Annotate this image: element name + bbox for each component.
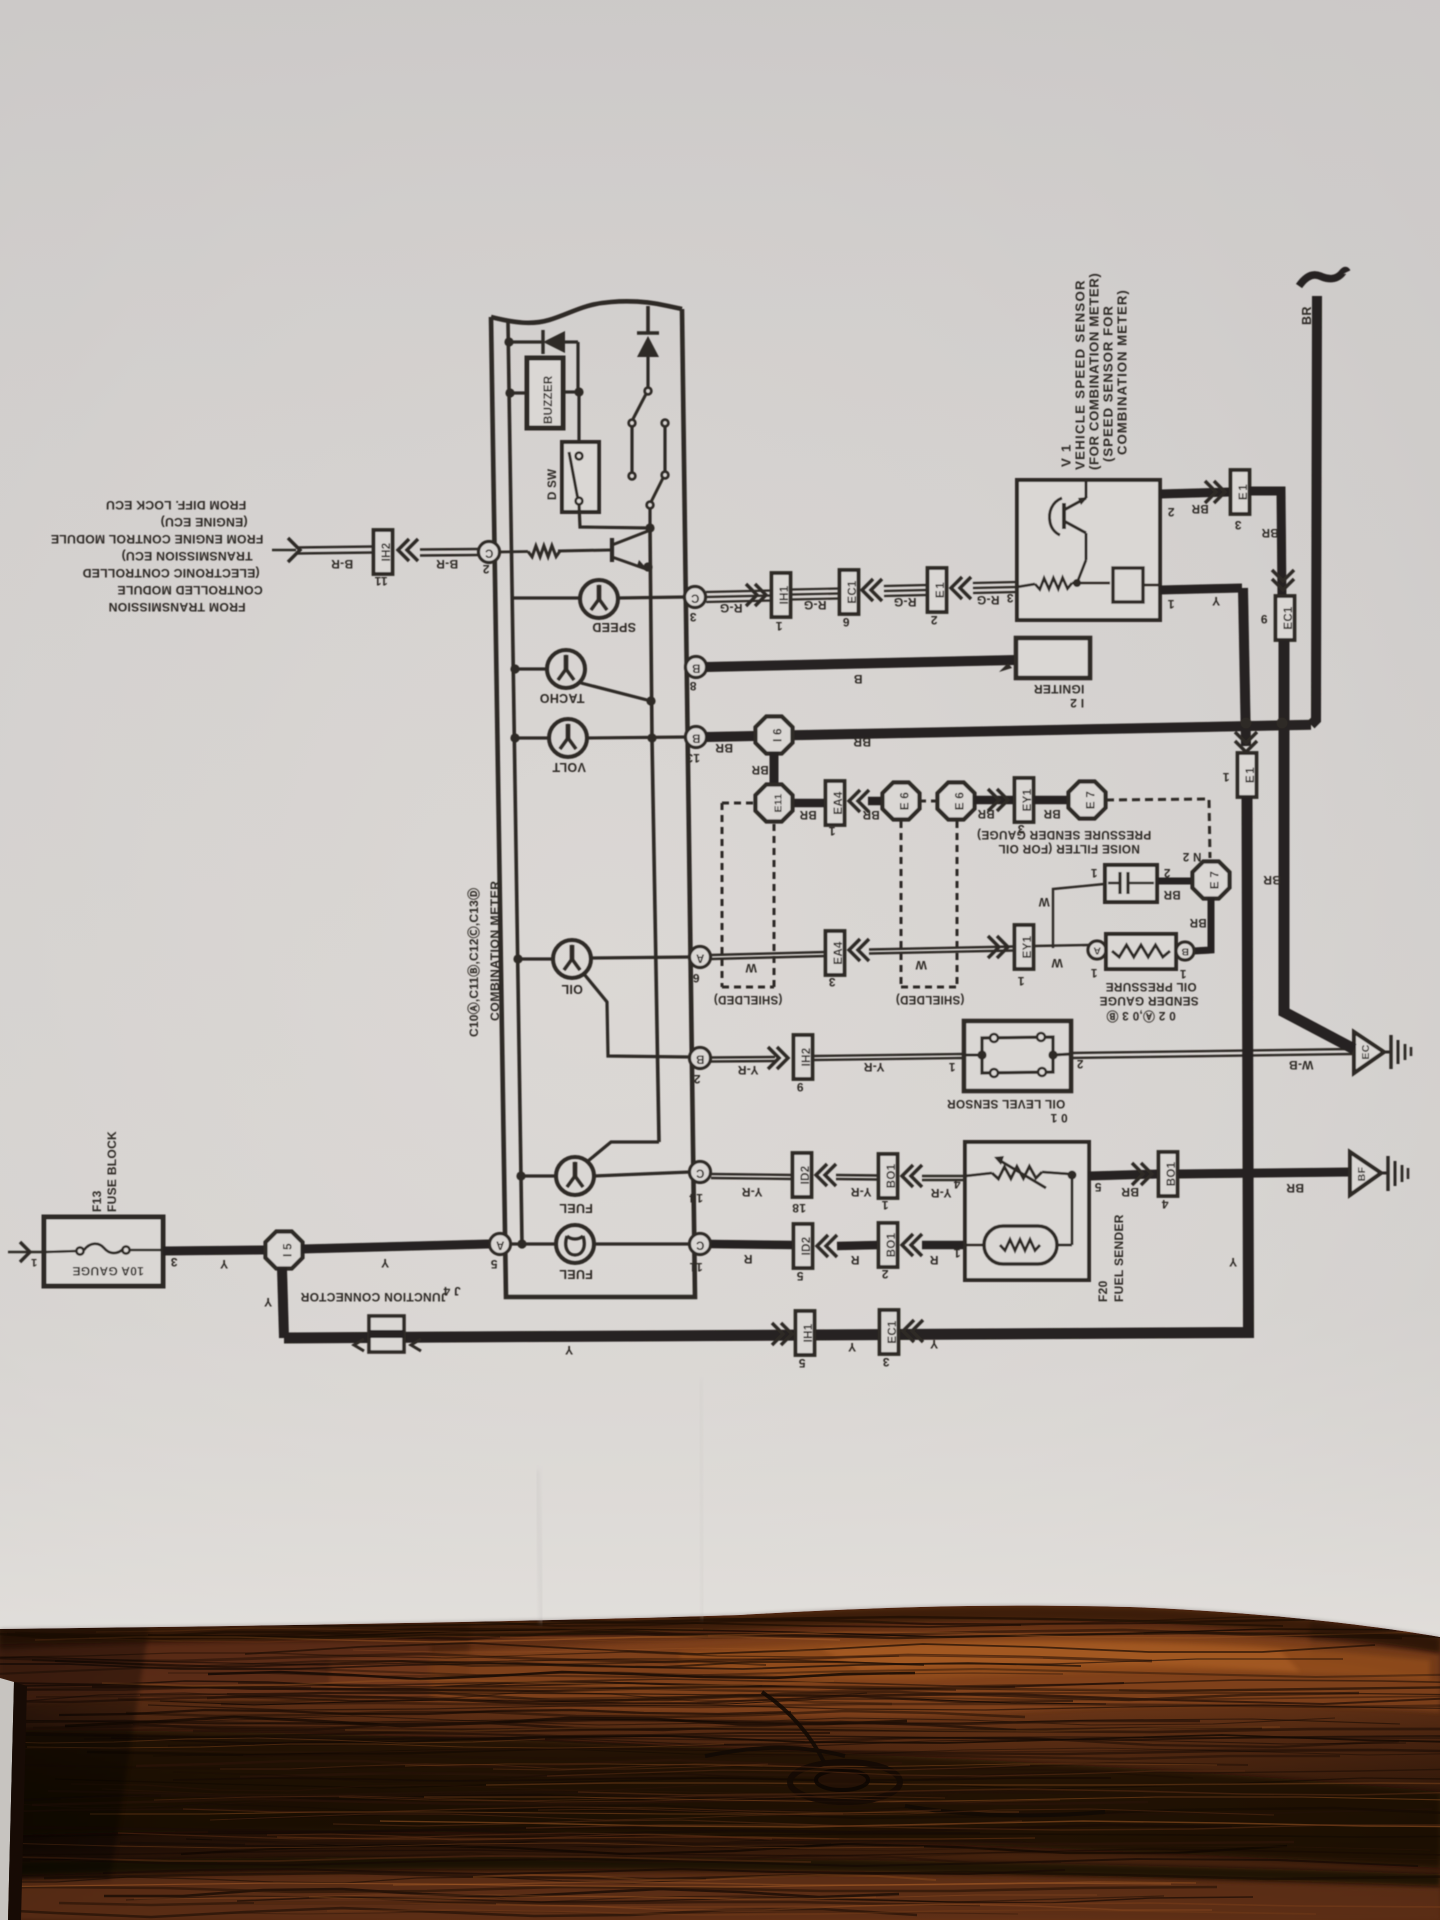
pin A of oil pressure sender [1088, 941, 1106, 959]
ground BF symbol bars [1381, 1156, 1408, 1191]
svg-text:Y: Y [848, 1340, 856, 1354]
svg-text:1: 1 [31, 1256, 37, 1268]
wire: oil gauge warning diagonal to 2B row [584, 974, 690, 1057]
wire: speed gauge to pin 3C [618, 597, 685, 598]
connector E6 octagon (first) [883, 783, 920, 820]
connector EC1 pin 3 (bottom bus) [880, 1310, 900, 1354]
svg-text:B: B [692, 662, 701, 674]
wire: I6 to E11 stub [770, 752, 779, 787]
wire W EA4 to EY1 [869, 947, 1014, 954]
svg-text:2: 2 [881, 1267, 888, 1281]
svg-text:3: 3 [882, 1355, 889, 1369]
ground EC symbol bars [1384, 1035, 1411, 1069]
gauge TACHO [547, 650, 585, 688]
svg-text:Y: Y [930, 1337, 938, 1351]
svg-text:N 2: N 2 [1183, 850, 1202, 862]
shield dashed link E6 to E6 [919, 800, 938, 803]
transistor emitter lead [612, 557, 647, 569]
svg-text:A: A [1093, 945, 1101, 957]
svg-text:BO1: BO1 [886, 1232, 898, 1257]
svg-text:3: 3 [828, 975, 835, 989]
svg-text:BF: BF [1356, 1166, 1368, 1181]
svg-text:EY1: EY1 [1022, 788, 1034, 811]
svg-text:5: 5 [796, 1269, 803, 1283]
wire Y-R IH2 to oil level sensor [813, 1054, 963, 1060]
arrow chevrons from ID2 (R) [817, 1235, 837, 1257]
wire W-B double to EC ground [1071, 1049, 1352, 1058]
svg-text:W: W [915, 958, 927, 972]
svg-text:9: 9 [1260, 612, 1267, 626]
svg-text:A: A [696, 952, 705, 964]
svg-text:BR: BR [1163, 888, 1181, 900]
switch contact b2 [662, 472, 669, 479]
wire BR E6 to EY1 [974, 796, 1014, 805]
svg-text:Y-R: Y-R [742, 1185, 763, 1199]
svg-text:5: 5 [798, 1356, 805, 1370]
svg-text:SENDER GAUGE: SENDER GAUGE [1099, 994, 1198, 1008]
junction dot BR/EC1 cross [1277, 718, 1288, 729]
arrow right of J4 [411, 1339, 421, 1351]
arrow chevrons W from EA4 [849, 939, 869, 961]
connector IH1 pin 5 (bottom bus) [796, 1311, 816, 1355]
svg-text:IH1: IH1 [779, 585, 791, 604]
wire Y fuse to I5 [163, 1250, 266, 1251]
shield dashed box (middle) [901, 821, 957, 987]
junction dot sensor resistor [1073, 579, 1081, 587]
svg-text:1: 1 [828, 824, 835, 838]
switch contact a2 [629, 420, 636, 427]
wire BR feed hook (torn-end squiggle) [1299, 271, 1347, 287]
wire: pickup to box edge [1143, 584, 1160, 587]
wire: sensor transistor to resistor [1077, 560, 1086, 583]
switch lever a [633, 394, 646, 419]
wire: meter internal right bus (lower) [650, 528, 659, 1142]
wire: D SW to right bus [579, 504, 650, 528]
gauge SPEED [580, 580, 618, 618]
D SW bottom contact [576, 498, 583, 505]
wire BR fuel sender to BO1 [1089, 1174, 1158, 1176]
wire BR EA4 to E6 [868, 797, 884, 806]
shield dashed E7 to noise filter E7 [1106, 799, 1210, 858]
svg-text:E 7: E 7 [1086, 791, 1098, 809]
svg-text:11: 11 [374, 574, 387, 588]
meter pin 5A [490, 1234, 511, 1255]
svg-text:2: 2 [930, 613, 937, 627]
connector E7 octagon (top row) [1069, 782, 1106, 819]
junction dot volt left [510, 733, 519, 742]
wire BR EC1 down to EC ground [1284, 640, 1354, 1049]
svg-text:I 2: I 2 [1070, 696, 1084, 710]
svg-text:1: 1 [953, 1246, 960, 1260]
svg-text:NOISE FILTER (FOR OIL: NOISE FILTER (FOR OIL [998, 842, 1140, 856]
svg-text:C: C [696, 1167, 705, 1179]
arrow chevrons from EA4 [849, 790, 869, 812]
wire: volt gauge to pin 13B [586, 737, 686, 738]
svg-text:TACHO: TACHO [539, 691, 584, 705]
svg-text:(ENGINE ECU): (ENGINE ECU) [160, 515, 247, 529]
svg-text:B: B [696, 1053, 705, 1065]
svg-text:R-G: R-G [804, 598, 827, 612]
wire: buzzer left lead [510, 391, 527, 394]
wire: switch b down [663, 426, 666, 471]
arrow chevrons R-G toward IH1 [746, 584, 766, 606]
svg-text:B: B [853, 672, 862, 686]
svg-text:2: 2 [693, 1072, 700, 1086]
connector ID2 pin 5 [794, 1224, 814, 1268]
svg-text:COMBINATION METER: COMBINATION METER [488, 881, 502, 1021]
connector BO1 pin 4 (BR) [1159, 1152, 1179, 1196]
svg-text:0 2 Ⓐ,0 3 Ⓑ: 0 2 Ⓐ,0 3 Ⓑ [1106, 1009, 1176, 1023]
svg-text:14: 14 [689, 1191, 703, 1205]
svg-text:BR: BR [715, 741, 733, 755]
gauge OIL [553, 940, 591, 978]
svg-text:PRESSURE SENDER GAUGE): PRESSURE SENDER GAUGE) [977, 828, 1151, 842]
arrow chevrons toward EB1 (top right) [1205, 481, 1225, 503]
wire R ID2 to BO1 [837, 1245, 879, 1246]
D SW top contact [576, 453, 583, 460]
ground EC triangle [1354, 1032, 1384, 1073]
connector IH1 pin 1 (R-G) [772, 573, 792, 617]
svg-text:E 6: E 6 [900, 792, 912, 810]
svg-text:D SW: D SW [547, 469, 559, 500]
fuel sender box F20 [965, 1142, 1089, 1280]
svg-text:TRANSMISSION ECU): TRANSMISSION ECU) [121, 549, 252, 563]
buzzer box [527, 358, 563, 428]
svg-text:1: 1 [1017, 974, 1024, 988]
text block: FROM TRANSMISSION CONTROLLED MODULE / ENGINE ECU / DIFF LOCK ECU (rotated 180) [51, 498, 264, 614]
arrow chevrons down on Y line [1235, 732, 1257, 752]
fuse block box F13 [44, 1217, 163, 1286]
transistor Q (speed buffer) base bar [610, 538, 614, 562]
svg-text:Y-R: Y-R [851, 1185, 872, 1199]
combination meter torn top edge (wavy) [491, 301, 682, 322]
wire W EY1 to sender pin A [1034, 945, 1089, 946]
svg-text:BR: BR [1300, 306, 1314, 325]
svg-text:Y: Y [264, 1295, 272, 1309]
wire BR EB1 corner down to EC1 [1249, 491, 1282, 600]
junction dot tacho left [510, 664, 519, 673]
connector I6 octagon [756, 717, 793, 754]
connector EC1 pin 6 (R-G) [840, 570, 860, 614]
arrow chevrons from BO1 (Y-R) [902, 1165, 922, 1187]
oil level sensor internal switch [977, 1033, 1057, 1077]
wire: tacho left lead [515, 667, 548, 670]
wire BR BO1 to BF ground [1178, 1172, 1350, 1174]
svg-text:VEHICLE SPEED SENSOR: VEHICLE SPEED SENSOR [1073, 279, 1088, 470]
wire: diode to switch node [576, 342, 579, 392]
arrow chevrons on B-R wire [398, 539, 418, 561]
svg-text:EY1: EY1 [1022, 935, 1034, 958]
svg-text:ID2: ID2 [801, 1237, 813, 1256]
transistor collector lead [612, 531, 648, 545]
svg-text:5: 5 [490, 1257, 497, 1271]
wire R thick 11C to ID2 [711, 1244, 794, 1245]
arrow chevrons from EC1 (bottom) [903, 1320, 923, 1342]
svg-text:3: 3 [1006, 591, 1013, 605]
junction dot D SW/right bus [645, 523, 654, 532]
svg-text:E 7: E 7 [1210, 871, 1222, 889]
svg-text:FROM ENGINE CONTROL MODULE: FROM ENGINE CONTROL MODULE [51, 532, 264, 546]
connector I5 octagon [266, 1232, 303, 1269]
svg-text:FROM TRANSMISSION: FROM TRANSMISSION [108, 600, 245, 614]
wire Y-R thin 14C to ID2 [711, 1174, 793, 1179]
svg-text:(SPEED SENSOR FOR: (SPEED SENSOR FOR [1101, 305, 1116, 462]
noise filter N2 box with capacitor [1105, 865, 1157, 902]
connector BO1 pin 2 (R) [879, 1223, 899, 1267]
svg-text:BR: BR [1121, 1185, 1139, 1199]
svg-text:ID2: ID2 [800, 1166, 812, 1185]
junction dot volt/bus [647, 733, 656, 742]
wire BR E7 down to pin B [1194, 898, 1211, 951]
speed sensor pickup element [1113, 568, 1143, 602]
gauge FUEL [556, 1157, 594, 1195]
svg-text:J 4: J 4 [443, 1284, 461, 1298]
meter pin 2C [479, 542, 500, 563]
wire: speed gauge left lead [512, 596, 580, 599]
svg-text:IH2: IH2 [381, 543, 393, 562]
arrow chevrons from BO1 (R) [902, 1234, 922, 1256]
svg-text:W-B: W-B [1289, 1058, 1314, 1072]
meter pin 6A [690, 947, 711, 968]
junction dot buzzer left [505, 388, 514, 397]
svg-text:EC1: EC1 [887, 1320, 899, 1344]
junction dot buzzer right [574, 387, 583, 396]
wire B thick 8B to igniter [706, 660, 1016, 667]
svg-text:Y-R: Y-R [931, 1186, 952, 1200]
switch lever b [651, 478, 663, 502]
wire BR thick 13B run [706, 725, 1311, 737]
fuel sender float resistor (stadium) [965, 1226, 1072, 1264]
fuse 10A GAUGE symbol [46, 1244, 163, 1255]
gauge VOLT [549, 719, 587, 757]
junction dot 5A bus [517, 1239, 526, 1248]
door switch D SW box [562, 442, 599, 512]
svg-text:1: 1 [1090, 866, 1097, 878]
meter pin 14C [690, 1162, 711, 1183]
speed sensor transistor [1050, 481, 1089, 560]
wire: oil gauge to pin 6A [590, 957, 690, 958]
svg-text:OIL PRESSURE: OIL PRESSURE [1105, 980, 1196, 994]
svg-text:1: 1 [1179, 967, 1186, 979]
connector E6 octagon (second) [938, 783, 975, 820]
svg-text:1: 1 [1167, 597, 1174, 611]
connector E11 octagon [756, 785, 793, 822]
wire W thin 6A to EA4 [711, 952, 826, 959]
svg-text:W: W [745, 961, 757, 975]
junction dot fuel left [516, 1171, 525, 1180]
wire Y-R ID2 to BO1 [836, 1175, 879, 1180]
wire: switch a down [630, 426, 633, 472]
wire: diode to first switch [646, 357, 649, 388]
svg-text:IGNITER: IGNITER [1034, 682, 1085, 696]
connector IH2 pin 11 (B-R wire) [374, 530, 394, 574]
connector EC1 pin 9 (right side) [1276, 596, 1296, 640]
arrow chevrons toward BO1 (BR) [1132, 1163, 1152, 1185]
wire R BO1 to fuel sender [922, 1241, 964, 1250]
svg-text:I 5: I 5 [283, 1243, 295, 1257]
meter pin 3C [685, 587, 706, 608]
resistor (speed input) [499, 546, 560, 557]
junction connector J4 box [369, 1316, 404, 1352]
wire arrow into fuse block pin 1 [8, 1242, 46, 1262]
switch contact a1 [645, 388, 652, 395]
svg-text:CONTROLLED MODULE: CONTROLLED MODULE [117, 583, 263, 597]
svg-text:JUNCTION CONNECTOR: JUNCTION CONNECTOR [300, 1290, 447, 1304]
svg-text:Y-R: Y-R [738, 1063, 759, 1077]
meter pin 8B [686, 657, 707, 678]
svg-text:FUEL: FUEL [559, 1267, 593, 1281]
wire: warning lamp to pin 11C [594, 1242, 690, 1245]
connector EY1 pin 1 (W wire) [1015, 925, 1035, 969]
wire: meter internal right bus (upper) [646, 306, 650, 333]
wire: volt left lead [515, 736, 550, 739]
svg-text:1: 1 [1090, 966, 1097, 978]
meter pin 13B [686, 727, 707, 748]
pin B of oil pressure sender [1176, 942, 1194, 960]
wire BR filter to E7 [1157, 878, 1196, 885]
wire: oil level sensor internal leads [964, 1054, 1071, 1055]
wire Y down right side [1243, 588, 1246, 746]
svg-text:6: 6 [692, 971, 699, 985]
svg-text:BO1: BO1 [886, 1163, 898, 1188]
svg-text:2: 2 [1164, 866, 1171, 878]
svg-text:C: C [696, 1239, 705, 1251]
svg-text:C10Ⓐ,C11Ⓑ,C12Ⓒ,C13Ⓓ: C10Ⓐ,C11Ⓑ,C12Ⓒ,C13Ⓓ [466, 888, 481, 1037]
fuel warning lamp symbol [556, 1225, 594, 1263]
junction dot diode/bus [504, 337, 513, 346]
svg-text:E11: E11 [773, 793, 785, 812]
svg-text:1: 1 [881, 1198, 888, 1212]
svg-text:(ELECTRONIC CONTROLLED: (ELECTRONIC CONTROLLED [82, 566, 259, 580]
svg-text:EC1: EC1 [847, 580, 859, 604]
svg-text:FUEL: FUEL [559, 1201, 593, 1215]
svg-text:IH2: IH2 [801, 1048, 813, 1067]
wire Y down to bottom corner [284, 797, 1249, 1338]
svg-text:EA4: EA4 [833, 941, 845, 965]
arrow chevrons toward IH2 [768, 1047, 788, 1069]
arrow chevrons R-G from EC1 [862, 579, 882, 601]
svg-text:13: 13 [686, 751, 700, 765]
speed sensor resistor [1017, 578, 1110, 590]
svg-text:R: R [743, 1252, 752, 1266]
svg-text:F13: F13 [90, 1190, 104, 1212]
wire: switch b to bus [648, 508, 651, 528]
wire B-R double line (right segment) [420, 549, 478, 556]
svg-text:R: R [929, 1253, 938, 1267]
wire BR feed vertical (with corner) [1311, 296, 1317, 725]
svg-text:3: 3 [1234, 518, 1241, 532]
ground BF triangle [1350, 1152, 1381, 1195]
svg-text:Y: Y [220, 1257, 228, 1271]
svg-text:Y: Y [565, 1343, 573, 1357]
svg-text:B-R: B-R [331, 557, 353, 571]
wire: fuel supply from bus [588, 1142, 659, 1161]
svg-text:1: 1 [1222, 770, 1229, 784]
wire BR EY1 to E7 [1034, 796, 1069, 805]
svg-text:OIL LEVEL SENSOR: OIL LEVEL SENSOR [947, 1097, 1066, 1111]
combination meter box outline C10-C13 [491, 309, 695, 1297]
wire: 5A to warning lamp [510, 1242, 556, 1245]
svg-text:3: 3 [170, 1255, 177, 1269]
svg-text:BR: BR [853, 735, 871, 749]
wire Y I5 to meter 5A [302, 1244, 489, 1249]
svg-text:BR: BR [799, 808, 817, 820]
wire Y sensor pin1 to corner [1160, 588, 1242, 590]
connector BO1 pin 1 (Y-R) [879, 1154, 899, 1198]
svg-text:BR: BR [1286, 1181, 1304, 1195]
svg-text:4: 4 [1161, 1197, 1168, 1211]
svg-text:R-G: R-G [894, 595, 917, 609]
svg-text:COMBINATION METER): COMBINATION METER) [1115, 289, 1130, 455]
connector ID2 pin 18 [793, 1153, 813, 1197]
svg-text:E 1: E 1 [1238, 484, 1250, 500]
svg-text:10A GAUGE: 10A GAUGE [72, 1264, 144, 1278]
arrow chevrons toward IH1 (bottom) [772, 1323, 792, 1345]
wire W branch to noise filter [1053, 884, 1104, 948]
svg-text:BR: BR [751, 763, 769, 775]
svg-text:Y-R: Y-R [864, 1060, 885, 1074]
svg-text:2: 2 [1167, 505, 1174, 519]
diode D (buzzer clamp, pointing left) [543, 330, 578, 354]
svg-text:BUZZER: BUZZER [543, 375, 555, 424]
wire: buzzer diode row lead [509, 340, 543, 343]
oil level sensor box [964, 1021, 1071, 1091]
fuel sender variable resistor [965, 1156, 1070, 1188]
svg-text:C: C [691, 592, 700, 604]
svg-text:R-G: R-G [720, 601, 743, 615]
arrow into B-R wire from transmission module [272, 538, 300, 562]
arrow chevrons down toward EC1 [1272, 570, 1294, 590]
svg-text:BR: BR [1263, 873, 1281, 887]
svg-text:1: 1 [775, 619, 782, 633]
svg-text:EC1: EC1 [1283, 606, 1295, 630]
switch contact a3 [629, 473, 636, 480]
svg-text:R: R [850, 1253, 859, 1267]
svg-text:0 1: 0 1 [1050, 1111, 1067, 1125]
arrow chevrons W toward EY1 [988, 936, 1008, 958]
wire: meter internal left bus [508, 322, 522, 1244]
wire R-G EC1 to EB1 [884, 585, 927, 596]
svg-text:1: 1 [948, 1060, 955, 1072]
svg-text:E 1: E 1 [1245, 767, 1257, 783]
junction dot fuel sender [1068, 1171, 1077, 1180]
junction dot BR/Y cross [1241, 718, 1252, 729]
svg-text:18: 18 [792, 1201, 806, 1215]
svg-text:9: 9 [796, 1080, 803, 1094]
svg-text:Y: Y [1212, 594, 1220, 608]
wire: oil left lead [518, 957, 554, 960]
connector EB1 pin 3 (top right) [1231, 470, 1251, 514]
svg-text:IH1: IH1 [803, 1323, 815, 1342]
arrow chevrons R-G from EB1 [951, 577, 971, 599]
svg-text:FUEL SENDER: FUEL SENDER [1112, 1214, 1126, 1302]
svg-text:EC: EC [1360, 1044, 1372, 1059]
vehicle speed sensor box V1 [1017, 480, 1160, 620]
wire R-G IH1 to EC1 [791, 589, 839, 600]
svg-text:V 1: V 1 [1059, 443, 1074, 467]
junction dot tacho/bus [646, 696, 655, 705]
svg-text:BR: BR [1261, 526, 1279, 538]
igniter box I2 [1016, 638, 1090, 678]
wire: buzzer right lead [563, 390, 579, 393]
wire Y I5 leg down to bottom bus [282, 1268, 284, 1338]
wire: fuel gauge to pin 14C [594, 1172, 690, 1176]
arrow chevrons from ID2 (14C) [816, 1164, 836, 1186]
svg-text:(FOR COMBINATION METER): (FOR COMBINATION METER) [1087, 273, 1102, 470]
junction dot oil left [513, 954, 522, 963]
switch contact b1 [662, 420, 669, 427]
junction dot emitter/bus [643, 562, 652, 571]
